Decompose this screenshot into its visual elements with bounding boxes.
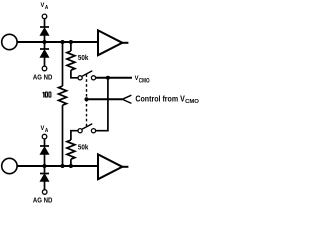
svg-text:A: A bbox=[45, 5, 48, 11]
node: top wire to R2 bbox=[69, 40, 73, 44]
wire: control line to arrow bbox=[87, 98, 123, 100]
svg-text:CMO: CMO bbox=[185, 99, 199, 105]
diode D3 (input to VA, bottom) bbox=[40, 146, 49, 166]
wire: R2 to switch S1 bbox=[71, 70, 78, 78]
wire: S1 to VCMO node bbox=[96, 77, 132, 79]
label 100 bbox=[43, 92, 51, 98]
wire: top input to buffer A1 bbox=[17, 41, 98, 43]
wire: A1 output bbox=[122, 42, 128, 44]
node: junction diode branch / bottom wire bbox=[42, 164, 46, 168]
svg-text:AG ND: AG ND bbox=[33, 74, 53, 81]
wire: A2 output bbox=[122, 166, 128, 168]
op-amp buffer A2 (bottom) bbox=[98, 154, 122, 179]
input port J1 (top) bbox=[2, 34, 17, 49]
svg-text:Control from V: Control from V bbox=[135, 94, 185, 103]
svg-text:50k: 50k bbox=[78, 55, 89, 62]
wire: top node down to R2 bbox=[70, 42, 72, 51]
input port J2 (bottom) bbox=[2, 158, 17, 173]
op-amp buffer A1 (top) bbox=[98, 30, 122, 55]
resistor R1 100 bbox=[59, 86, 67, 105]
wire: R1 down to bottom wire bbox=[62, 105, 64, 166]
diode D4 (AGND to input, bottom) bbox=[40, 166, 49, 190]
node: top wire to R1 bbox=[60, 40, 64, 44]
wire: VA terminal to D1 bbox=[44, 19, 46, 27]
wire: dashed control line between S1 and S2 bbox=[86, 74, 88, 126]
switch S1 (top) bbox=[78, 71, 96, 80]
node: VCMO junction bbox=[106, 76, 110, 80]
svg-text:CMO: CMO bbox=[139, 78, 150, 84]
node: bottom wire to R3 bbox=[69, 164, 73, 168]
wire: bottom input to buffer A2 bbox=[17, 165, 98, 167]
wire: switch S2 to R3 bbox=[71, 131, 78, 140]
node: control junction bbox=[84, 97, 88, 101]
resistor R2 50k (top) bbox=[67, 51, 75, 70]
node: bottom wire to R1 bbox=[60, 164, 64, 168]
arrow: control input bbox=[122, 95, 131, 103]
wire: R3 down to bottom wire bbox=[70, 159, 72, 166]
node: junction diode branch / top wire bbox=[42, 40, 46, 44]
wire: VA terminal to D3 bbox=[44, 139, 46, 146]
terminal AGND (bottom) bbox=[42, 190, 47, 195]
svg-text:AG ND: AG ND bbox=[33, 198, 53, 205]
svg-text:50k: 50k bbox=[78, 145, 89, 152]
diode D1 (input to VA) bbox=[40, 27, 49, 42]
terminal VA (top) bbox=[42, 14, 47, 19]
switch S2 (bottom) bbox=[78, 124, 96, 133]
terminal AGND (top) bbox=[42, 66, 47, 71]
wire: VCMO node down to switch S2 bbox=[96, 78, 108, 131]
wire: top node down to R1 bbox=[62, 42, 64, 86]
diode D2 (AGND to input) bbox=[40, 42, 49, 66]
terminal VA (bottom) bbox=[42, 134, 47, 139]
resistor R3 50k (bottom) bbox=[67, 140, 75, 159]
svg-text:A: A bbox=[45, 128, 48, 134]
